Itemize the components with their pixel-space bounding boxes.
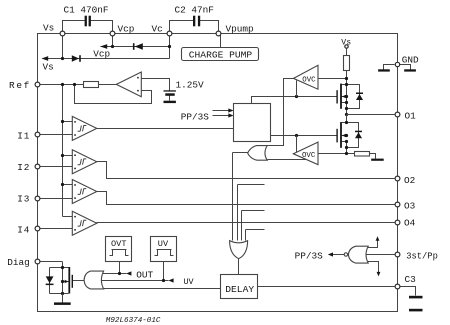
svg-text:I2: I2 bbox=[17, 162, 30, 173]
svg-text:OVC: OVC bbox=[302, 152, 316, 160]
svg-text:1.25V: 1.25V bbox=[176, 80, 205, 91]
svg-text:Vcp: Vcp bbox=[118, 24, 135, 35]
svg-text:M92L6374-01C: M92L6374-01C bbox=[106, 317, 161, 325]
svg-text:Vpump: Vpump bbox=[226, 24, 254, 35]
svg-text:C3: C3 bbox=[405, 274, 417, 285]
svg-text:Diag: Diag bbox=[7, 257, 30, 268]
svg-text:PP/3S: PP/3S bbox=[181, 112, 210, 123]
svg-text:UV: UV bbox=[184, 277, 194, 287]
svg-text:OVC: OVC bbox=[302, 76, 316, 84]
svg-text:GND: GND bbox=[402, 55, 419, 66]
svg-text:Vs: Vs bbox=[43, 62, 54, 73]
svg-text:CHARGE PUMP: CHARGE PUMP bbox=[189, 50, 253, 61]
svg-text:O2: O2 bbox=[404, 175, 415, 186]
svg-text:UV: UV bbox=[158, 239, 169, 249]
svg-text:Vcp: Vcp bbox=[93, 48, 110, 59]
svg-text:O4: O4 bbox=[404, 217, 416, 228]
svg-text:3st/Pp: 3st/Pp bbox=[406, 251, 438, 261]
svg-text:Vs: Vs bbox=[43, 23, 54, 34]
svg-text:I1: I1 bbox=[17, 130, 30, 141]
svg-text:Vc: Vc bbox=[152, 24, 163, 35]
svg-text:Ref: Ref bbox=[9, 80, 31, 91]
svg-text:I4: I4 bbox=[17, 224, 30, 235]
svg-text:DELAY: DELAY bbox=[225, 284, 254, 295]
svg-text:PP/3S: PP/3S bbox=[295, 251, 324, 262]
svg-text:Vs: Vs bbox=[341, 38, 351, 47]
svg-text:C2 47nF: C2 47nF bbox=[175, 5, 214, 16]
svg-text:OVT: OVT bbox=[111, 239, 126, 249]
svg-text:C1 470nF: C1 470nF bbox=[64, 5, 109, 16]
svg-text:O3: O3 bbox=[404, 200, 416, 211]
svg-text:OUT: OUT bbox=[136, 270, 153, 281]
svg-text:I3: I3 bbox=[17, 193, 30, 204]
svg-text:O1: O1 bbox=[405, 110, 417, 121]
